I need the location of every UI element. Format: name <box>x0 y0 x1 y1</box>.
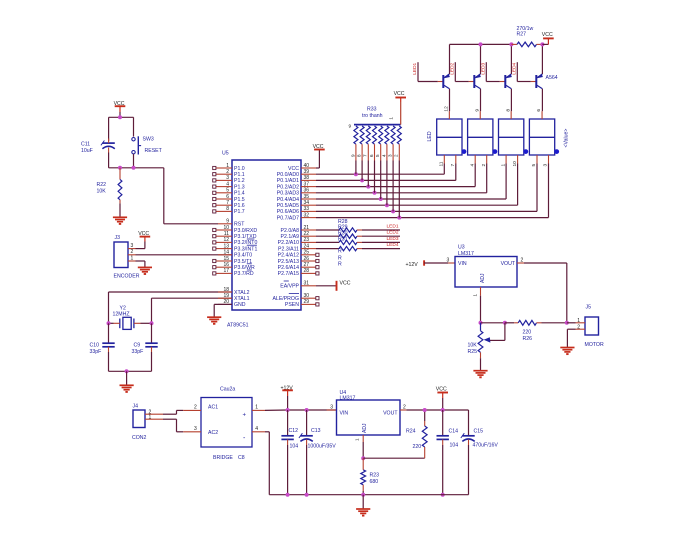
pin 15 P3.5/T1 <box>213 256 253 265</box>
junction motor node <box>565 321 569 325</box>
ground (PSU) <box>356 509 370 516</box>
wire +12V stem <box>287 396 289 410</box>
wire P0.1 bus <box>316 164 456 181</box>
svg-text:EA/VPP: EA/VPP <box>280 284 299 290</box>
svg-text:LED3: LED3 <box>480 62 486 74</box>
label R30 <box>338 231 348 237</box>
svg-text:P1.7: P1.7 <box>234 209 245 215</box>
svg-text:J5: J5 <box>586 305 592 311</box>
pin 35 P0.4/AD4 <box>277 194 316 203</box>
svg-text:LM317: LM317 <box>458 251 474 257</box>
svg-text:VOUT: VOUT <box>383 410 398 416</box>
wire switch to bottom rail <box>133 154 135 168</box>
wire P0.2 bus <box>316 164 475 187</box>
svg-text:1: 1 <box>500 164 506 167</box>
label R28 <box>338 219 348 225</box>
junction P0.6 / resistor network <box>391 209 395 213</box>
node LED4 (net label) <box>511 62 517 74</box>
svg-text:LED1: LED1 <box>387 223 399 229</box>
label <Value> (display) <box>564 129 570 148</box>
svg-text:VCC: VCC <box>542 32 553 38</box>
pin 8 P1.7 <box>213 206 245 215</box>
wire R25 to ground <box>480 358 482 371</box>
svg-text:104: 104 <box>290 444 299 450</box>
svg-text:2: 2 <box>481 164 487 167</box>
ground (motor) <box>560 348 574 355</box>
svg-text:U5: U5 <box>222 151 229 157</box>
wire net LED3 to Q3 base <box>486 62 505 81</box>
capacitor C13 <box>299 410 336 495</box>
svg-text:+: + <box>243 413 247 419</box>
junction R23 bottom <box>361 493 365 497</box>
resistor R28 (P2.0 to LED1) <box>316 228 400 232</box>
resistor R27 <box>511 26 542 47</box>
junction P0.0 / resistor network <box>354 172 358 176</box>
pin 1 of bridge + <box>252 405 265 411</box>
svg-text:C15: C15 <box>474 429 484 435</box>
wire VCC to reset top rail <box>119 112 121 117</box>
pin 20 GND <box>218 299 246 308</box>
svg-text:VCC: VCC <box>114 101 125 107</box>
svg-text:11: 11 <box>439 161 445 166</box>
svg-text:104: 104 <box>450 443 459 449</box>
svg-text:P0.1/AD1: P0.1/AD1 <box>277 178 299 184</box>
wire C11 to bottom rail <box>108 153 110 168</box>
svg-text:ALE/PROG: ALE/PROG <box>272 296 299 302</box>
pin 4 of bridge - <box>252 426 265 432</box>
connector J3 <box>114 235 128 267</box>
svg-text:P1.3: P1.3 <box>234 184 245 190</box>
wire J3 pin1 to ground <box>136 261 145 267</box>
svg-text:CON2: CON2 <box>132 435 147 441</box>
pin 24 P2.3/A11 <box>278 243 316 252</box>
svg-text:P0.2/AD2: P0.2/AD2 <box>277 184 299 190</box>
pin 29 PSEN <box>285 299 319 308</box>
pin 33 P0.6/AD6 <box>277 206 316 215</box>
svg-text:8: 8 <box>357 154 362 157</box>
wire ADJ node to wiper node <box>481 322 505 324</box>
wire +12V to U3 VIN <box>424 258 455 264</box>
svg-text:4: 4 <box>381 154 386 157</box>
pin ADJ of U4 <box>355 435 364 442</box>
resistor R33 element 3 <box>363 126 371 187</box>
junction C12 top <box>286 408 290 412</box>
node LED3 net label <box>387 236 399 242</box>
wire P0.0 bus <box>316 164 444 175</box>
svg-text:1: 1 <box>577 318 580 324</box>
ground (MCU) <box>207 317 221 324</box>
svg-text:J3: J3 <box>115 235 121 241</box>
svg-text:7: 7 <box>363 154 368 157</box>
svg-text:9: 9 <box>474 109 480 112</box>
pin 26 P2.5/A13 <box>278 256 319 265</box>
label R value a <box>338 249 342 255</box>
wire P0.5 bus <box>316 164 518 206</box>
svg-text:6: 6 <box>536 109 542 112</box>
svg-text:3: 3 <box>447 258 450 264</box>
ground (R25) <box>473 371 487 378</box>
wire P0.7 bus <box>316 164 549 218</box>
wire crystal bottom rail <box>109 352 152 371</box>
pin 6 P1.5 <box>213 194 245 203</box>
op-amp U4 LM317 body <box>337 390 401 435</box>
wire J3 pin2 to P3.4/T0 <box>136 254 233 256</box>
svg-text:tro thanh: tro thanh <box>362 113 383 119</box>
wire PSU bottom rail <box>269 494 468 496</box>
pin 19 XTAL1 <box>218 293 250 302</box>
svg-text:P1.1: P1.1 <box>234 172 245 178</box>
svg-text:5: 5 <box>375 154 380 157</box>
svg-text:P3.7/RD: P3.7/RD <box>234 271 254 277</box>
wire U3 VOUT to motor node <box>524 263 567 323</box>
svg-text:C12: C12 <box>289 428 299 434</box>
wire MCU pin20 GND to ground <box>214 304 232 317</box>
junction ADJ node <box>479 321 483 325</box>
junction C13 bottom <box>305 493 309 497</box>
junction P0.5 / resistor network <box>385 203 389 207</box>
junction wiper node <box>503 321 507 325</box>
resistor R33 element 8 <box>394 126 402 218</box>
svg-text:PSEN: PSEN <box>285 302 299 308</box>
display LED2 (7-segment) <box>468 109 498 167</box>
svg-text:2: 2 <box>403 404 406 410</box>
power VCC symbol (reset circuit) <box>114 101 126 112</box>
junction U4 ADJ node <box>361 456 365 460</box>
svg-text:P2.6/A14: P2.6/A14 <box>278 265 299 271</box>
svg-text:P2.4/A12: P2.4/A12 <box>278 253 299 259</box>
resistor R22 <box>97 168 122 204</box>
wire Q4 collector to display <box>541 89 543 111</box>
wire R26 to motor node <box>542 322 567 324</box>
pin 2 of U3 VOUT <box>517 258 524 264</box>
wire motor node to J5 pin1 <box>567 322 576 324</box>
wire ADJ node to R24 <box>363 457 425 459</box>
transistor Q1 A564 <box>443 74 450 89</box>
junction C14 bottom <box>441 493 445 497</box>
capacitor C11 <box>81 139 115 155</box>
svg-text:R31: R31 <box>338 237 348 243</box>
crystal Y2 <box>113 306 141 330</box>
svg-text:P0.7/AD7: P0.7/AD7 <box>277 215 299 221</box>
capacitor C10 <box>90 323 115 355</box>
svg-text:P2.3/A11: P2.3/A11 <box>278 246 299 252</box>
junction P0.2 / resistor network <box>366 185 370 189</box>
svg-text:P2.1/A9: P2.1/A9 <box>281 234 300 240</box>
svg-text:2: 2 <box>521 258 524 264</box>
wire P0.6 bus <box>316 164 537 212</box>
svg-text:VIN: VIN <box>340 410 349 416</box>
power VCC symbol (MCU pin 40) <box>313 144 325 168</box>
svg-text:RESET: RESET <box>145 148 163 154</box>
wire R33 common to VCC <box>400 98 402 125</box>
pin 23 P2.2/A10 <box>278 237 316 246</box>
svg-text:1: 1 <box>149 415 152 421</box>
svg-text:P1.2: P1.2 <box>234 178 245 184</box>
svg-text:P2.2/A10: P2.2/A10 <box>278 240 299 246</box>
svg-text:VOUT: VOUT <box>501 261 516 267</box>
svg-text:XTAL2: XTAL2 <box>234 290 250 296</box>
svg-text:ADJ: ADJ <box>362 423 368 433</box>
svg-text:C13: C13 <box>311 428 321 434</box>
svg-text:+12V: +12V <box>406 262 419 268</box>
pin 2 P1.1 <box>213 169 245 178</box>
svg-text:1: 1 <box>473 294 478 297</box>
svg-text:R25: R25 <box>468 349 478 355</box>
pin 31 EA/VPP <box>280 281 316 290</box>
pin 27 P2.6/A14 <box>278 262 319 271</box>
label A564 <box>546 75 558 81</box>
svg-text:33pF: 33pF <box>132 349 144 355</box>
node LED1 net label <box>387 223 399 229</box>
svg-text:3: 3 <box>330 404 333 410</box>
power +12V symbol (U3) <box>406 260 425 268</box>
svg-text:2: 2 <box>194 405 197 411</box>
svg-text:VIN: VIN <box>458 261 467 267</box>
svg-text:XTAL1: XTAL1 <box>234 296 250 302</box>
pin 11 P3.1/TXD <box>213 231 257 240</box>
svg-text:9: 9 <box>350 154 355 157</box>
svg-text:U3: U3 <box>458 245 465 251</box>
display LED4 (7-segment) <box>529 109 559 167</box>
svg-text:R23: R23 <box>370 473 380 479</box>
pin 28 P2.7/A15 <box>278 268 319 277</box>
op-amp U5 AT89C51 body <box>222 151 301 329</box>
svg-text:Cau2a: Cau2a <box>220 387 235 393</box>
label R value c <box>338 262 342 268</box>
wire Q4 emitter to rail <box>541 44 543 74</box>
svg-text:220: 220 <box>413 444 422 450</box>
svg-text:P1.0: P1.0 <box>234 166 245 172</box>
wire net LED2 to Q2 base <box>455 62 474 81</box>
potentiometer R25 <box>468 323 505 358</box>
pin 14 P3.4/T0 <box>218 250 252 259</box>
junction P0.3 / resistor network <box>373 191 377 195</box>
svg-text:LED2: LED2 <box>387 230 399 236</box>
capacitor C14 <box>437 410 459 495</box>
pin 9 RST <box>218 219 245 228</box>
wire net LED1 to Q1 base <box>418 62 443 81</box>
wire U4 VOUT rail <box>406 409 468 411</box>
pin 18 XTAL2 <box>218 287 250 296</box>
wire reset to RST pin <box>164 168 218 224</box>
junction P0.7 / resistor network <box>397 216 401 220</box>
pin 2 of U4 VOUT <box>400 404 406 410</box>
wire crystal right lead <box>141 318 152 323</box>
node LED4 net label <box>387 242 399 248</box>
capacitor C9 <box>132 323 158 355</box>
pin 34 P0.5/AD5 <box>277 200 316 209</box>
svg-text:P0.6/AD6: P0.6/AD6 <box>277 209 299 215</box>
svg-text:12: 12 <box>444 106 450 112</box>
svg-text:220: 220 <box>523 329 532 335</box>
pin 25 P2.4/A12 <box>278 250 319 259</box>
svg-text:LED3: LED3 <box>387 236 399 242</box>
resistor R33 element 5 <box>375 126 383 199</box>
svg-text:RST: RST <box>234 222 245 228</box>
wire reset right branch <box>133 117 135 136</box>
svg-text:ADJ: ADJ <box>480 273 486 283</box>
svg-text:P1.6: P1.6 <box>234 203 245 209</box>
wire U3 ADJ down <box>480 296 482 323</box>
svg-text:2: 2 <box>394 154 399 157</box>
svg-text:C11: C11 <box>81 142 90 148</box>
svg-text:MOTOR: MOTOR <box>585 342 604 348</box>
svg-text:LED1: LED1 <box>412 62 418 74</box>
svg-text:P2.5/A13: P2.5/A13 <box>278 259 299 265</box>
pin 16 P3.6/WR <box>213 262 255 271</box>
pin 4 P1.3 <box>213 181 245 190</box>
svg-text:7: 7 <box>450 164 456 167</box>
node LED1 (net label) <box>412 62 418 74</box>
wire rail to VCC <box>542 38 548 44</box>
power VCC symbol (PSU output) <box>436 387 448 399</box>
svg-text:12MHZ: 12MHZ <box>113 312 130 318</box>
svg-text:P1.5: P1.5 <box>234 197 245 203</box>
svg-text:LED4: LED4 <box>511 62 517 74</box>
svg-text:R: R <box>338 262 342 268</box>
svg-text:A564: A564 <box>546 75 558 81</box>
svg-text:1: 1 <box>131 255 134 261</box>
svg-text:AC2: AC2 <box>208 430 218 436</box>
junction crystal left <box>107 321 111 325</box>
wire Q1 emitter to rail <box>449 44 451 74</box>
svg-text:2: 2 <box>131 249 134 255</box>
svg-text:P3.0/RXD: P3.0/RXD <box>234 228 257 234</box>
pin 7 P1.6 <box>213 200 245 209</box>
wire reset top rail <box>109 116 134 118</box>
svg-text:P0.5/AD5: P0.5/AD5 <box>277 203 299 209</box>
pin 2 of J4 <box>145 409 163 415</box>
display LED1 (7-segment) <box>437 106 467 167</box>
junction reset bottom right <box>132 166 136 170</box>
resistor R33 element 6 <box>381 126 389 205</box>
wire J5 pin2 to ground <box>567 329 575 347</box>
svg-text:R24: R24 <box>406 429 416 435</box>
svg-text:BRIDGE: BRIDGE <box>213 455 233 461</box>
svg-text:4: 4 <box>255 426 258 432</box>
wire reset left branch <box>108 117 110 141</box>
svg-text:10K: 10K <box>468 342 478 348</box>
resistor R30 (P2.2 to LED3) <box>316 240 400 244</box>
junction P0.1 / resistor network <box>360 178 364 182</box>
svg-text:33pF: 33pF <box>90 349 102 355</box>
svg-text:9: 9 <box>349 124 352 129</box>
svg-text:Y2: Y2 <box>120 306 126 312</box>
node LED2 net label <box>387 230 399 236</box>
svg-text:LED4: LED4 <box>387 242 399 248</box>
wire VCC stem (PSU) <box>442 398 444 410</box>
pin 37 P0.2/AD2 <box>277 181 316 190</box>
svg-text:R: R <box>338 249 342 255</box>
label LED (display) <box>427 131 433 141</box>
pin 2 of J3 <box>128 249 136 255</box>
svg-text:3: 3 <box>543 164 549 167</box>
wire P0.4 bus <box>316 164 506 200</box>
svg-text:5: 5 <box>531 164 537 167</box>
wire J4 pin1 to bridge AC2 <box>163 419 183 432</box>
junction R24 top <box>423 408 427 412</box>
bridge rectifier C8 <box>201 387 252 462</box>
svg-text:VCC: VCC <box>313 144 324 150</box>
op-amp U3 LM317 body <box>455 245 517 287</box>
transistor Q2 A564 <box>474 74 481 89</box>
resistor R33 element 1 <box>350 126 358 174</box>
wire P0.3 bus <box>316 164 487 193</box>
transistor Q4 A564 <box>536 74 543 89</box>
capacitor C15 <box>461 410 499 495</box>
pin 12 P3.2/INT0 <box>213 237 258 246</box>
pin 1 of J4 <box>145 415 163 421</box>
resistor R33 element 7 <box>388 126 396 211</box>
svg-text:ENCODER: ENCODER <box>114 274 140 280</box>
pin 21 P2.0/A8 <box>281 225 316 234</box>
svg-text:P2.0/A8: P2.0/A8 <box>281 228 300 234</box>
pin 10 P3.0/RXD <box>213 225 258 234</box>
pin 36 P0.3/AD3 <box>277 188 316 197</box>
pin 22 P2.1/A9 <box>281 231 316 240</box>
power VCC symbol (R33) <box>394 91 406 97</box>
wire net LED4 to Q4 base <box>517 62 536 81</box>
power VCC symbol (EA/VPP pin 31) <box>316 280 351 290</box>
junction rail Q3 <box>509 42 513 46</box>
junction crystal bottom <box>125 369 129 373</box>
pin 3 of J3 <box>128 243 136 249</box>
pin 3 of bridge AC2 <box>183 426 201 432</box>
svg-text:C9: C9 <box>134 342 141 348</box>
svg-text:P0.4/AD4: P0.4/AD4 <box>277 197 299 203</box>
resistor R23 <box>361 458 379 495</box>
resistor R33 element 2 <box>357 126 365 180</box>
svg-text:R22: R22 <box>97 182 107 188</box>
junction C13 top <box>305 408 309 412</box>
svg-text:C8: C8 <box>238 455 245 461</box>
power +12V symbol (PSU) <box>281 385 294 396</box>
svg-text:3: 3 <box>388 154 393 157</box>
pin 2 of J5 <box>576 324 586 330</box>
pin 1 of J3 <box>128 255 136 261</box>
pin 5 P1.4 <box>213 188 245 197</box>
junction reset bottom left <box>118 166 122 170</box>
svg-text:4: 4 <box>469 164 475 167</box>
svg-text:VCC: VCC <box>340 280 351 286</box>
svg-text:8: 8 <box>505 109 511 112</box>
resistor R33 element 4 <box>369 126 377 193</box>
wire emitter rail <box>450 43 512 45</box>
pin 3 of U4 VIN <box>327 404 337 410</box>
pin 1 of J5 <box>576 318 586 324</box>
power VCC symbol (display rail) <box>542 32 554 38</box>
resistor R24 <box>406 410 427 458</box>
pin 1 of U3 ADJ <box>473 287 481 297</box>
switch SW3 RESET <box>132 136 163 154</box>
junction C12 bottom <box>286 493 290 497</box>
svg-text:P2.7/A15: P2.7/A15 <box>278 271 299 277</box>
wire Q3 emitter to rail <box>510 44 512 74</box>
svg-text:R33: R33 <box>367 107 377 113</box>
label R31 <box>338 237 348 243</box>
svg-text:<Value>: <Value> <box>564 129 570 148</box>
wire Q2 emitter to rail <box>480 44 482 74</box>
svg-text:1: 1 <box>388 117 393 120</box>
svg-text:6: 6 <box>369 154 374 157</box>
junction C14 top <box>441 408 445 412</box>
node LED3 (net label) <box>480 62 486 74</box>
pin 2 of bridge AC1 <box>183 405 201 411</box>
wire J3 pin3 to VCC <box>136 237 145 249</box>
wire to crystal ground <box>126 371 128 385</box>
wire Q3 collector to display <box>510 89 512 111</box>
transistor Q3 A564 <box>505 74 512 89</box>
